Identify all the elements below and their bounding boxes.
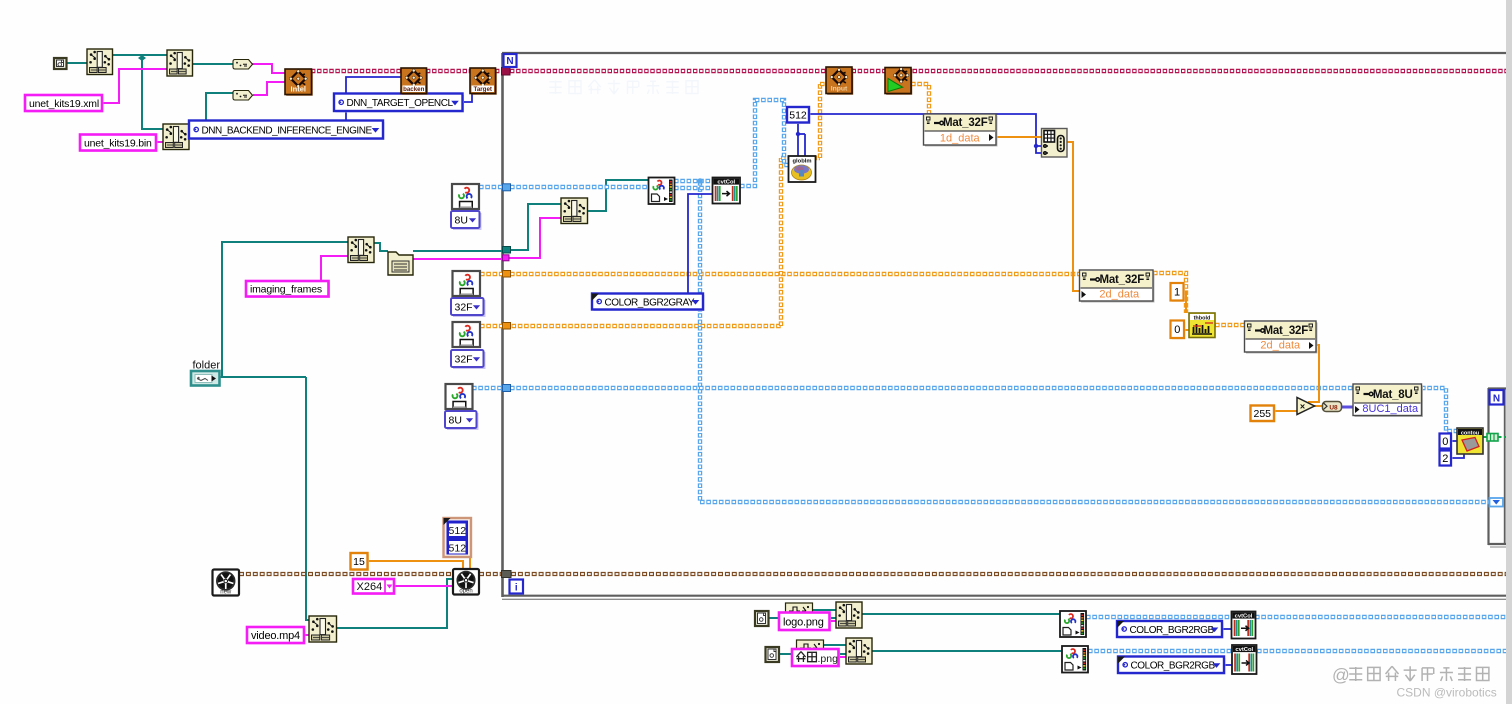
svg-text:Mat_32F: Mat_32F <box>1263 325 1308 337</box>
svg-text:logo.png: logo.png <box>783 616 824 628</box>
svg-text:Mat_8U: Mat_8U <box>1373 389 1413 401</box>
svg-text:COLOR_BGR2GRAY: COLOR_BGR2GRAY <box>605 297 695 308</box>
svg-text:@: @ <box>1332 665 1350 685</box>
svg-text:Input: Input <box>831 86 848 93</box>
svg-text:512: 512 <box>449 542 467 554</box>
svg-text:globIm: globIm <box>793 159 812 165</box>
svg-text:2: 2 <box>1442 453 1448 465</box>
svg-text:2d_data: 2d_data <box>1260 340 1301 352</box>
svg-text:1d_data: 1d_data <box>940 133 981 145</box>
svg-text:thbold: thbold <box>1194 315 1211 321</box>
svg-text:0: 0 <box>1442 436 1448 448</box>
svg-text:15: 15 <box>353 556 365 568</box>
svg-text:8UC1_data: 8UC1_data <box>1362 403 1419 415</box>
svg-text:8U: 8U <box>449 414 462 426</box>
svg-text:X264: X264 <box>357 581 383 593</box>
svg-text:imaging_frames: imaging_frames <box>250 284 322 296</box>
svg-text:32F: 32F <box>455 353 473 365</box>
svg-text:backen: backen <box>403 86 425 93</box>
svg-text:U8: U8 <box>1329 405 1338 412</box>
svg-text:unet_kits19.xml: unet_kits19.xml <box>29 98 99 110</box>
svg-text:2d_data: 2d_data <box>1099 289 1140 301</box>
svg-text:i: i <box>515 582 518 593</box>
svg-text:.png: .png <box>818 653 839 665</box>
svg-text:unet_kits19.bin: unet_kits19.bin <box>84 137 152 149</box>
svg-text:×: × <box>1300 402 1305 412</box>
svg-text:Intel: Intel <box>291 85 306 94</box>
svg-text:cvtCol: cvtCol <box>1235 647 1253 653</box>
svg-text:video.mp4: video.mp4 <box>251 630 300 642</box>
svg-text:0: 0 <box>1174 324 1180 336</box>
svg-text:N: N <box>506 56 513 67</box>
svg-text:contou: contou <box>1461 430 1479 436</box>
svg-text:cvtCol: cvtCol <box>717 180 735 186</box>
svg-text:Mat_32F: Mat_32F <box>943 117 988 129</box>
svg-text:COLOR_BGR2RGB: COLOR_BGR2RGB <box>1130 625 1215 636</box>
svg-text:Mat_32F: Mat_32F <box>1099 274 1144 286</box>
svg-text:DNN_BACKEND_INFERENCE_ENGINE: DNN_BACKEND_INFERENCE_ENGINE <box>202 125 373 136</box>
svg-text:255: 255 <box>1253 408 1271 420</box>
svg-text:N: N <box>1493 393 1500 404</box>
svg-text:Target: Target <box>474 86 492 93</box>
svg-text:COLOR_BGR2RGB: COLOR_BGR2RGB <box>1131 661 1216 672</box>
svg-text:DNN_TARGET_OPENCL: DNN_TARGET_OPENCL <box>347 98 454 109</box>
svg-text:open: open <box>459 588 472 594</box>
svg-text:1: 1 <box>1174 287 1180 299</box>
svg-text:new: new <box>220 589 232 595</box>
svg-text:512: 512 <box>449 525 467 537</box>
svg-text:32F: 32F <box>455 301 473 313</box>
svg-text:8U: 8U <box>455 214 468 226</box>
svg-text:512: 512 <box>789 110 807 122</box>
svg-text:cvtCol: cvtCol <box>1235 614 1253 620</box>
svg-text:CSDN @virobotics: CSDN @virobotics <box>1397 686 1497 700</box>
